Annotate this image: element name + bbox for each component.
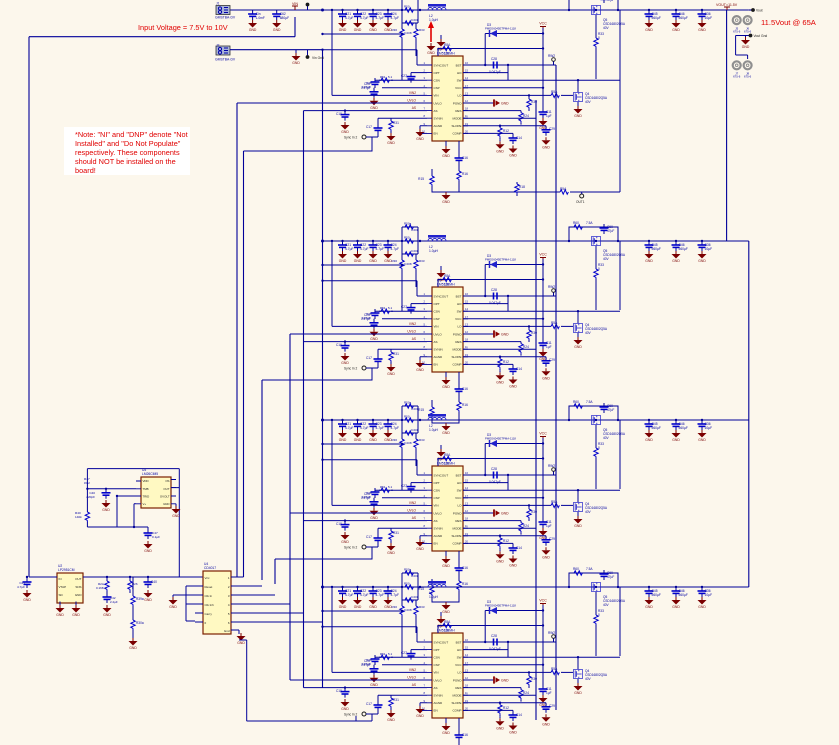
svg-text:0: 0 [598,267,600,271]
svg-text:R33: R33 [419,259,425,263]
svg-text:LM26CIM5: LM26CIM5 [142,472,158,476]
svg-text:VCC: VCC [455,317,462,321]
svg-text:VCC: VCC [539,253,547,257]
svg-text:Clk In: Clk In [205,594,213,598]
svg-text:R60: R60 [573,221,579,225]
svg-text:R39a: R39a [136,597,144,601]
svg-text:VDD: VDD [143,479,149,483]
svg-text:R5A: R5A [560,187,567,191]
svg-text:4.7µF: 4.7µF [376,247,385,251]
svg-text:675-6: 675-6 [744,30,752,34]
svg-text:675-6: 675-6 [733,75,741,79]
svg-text:UVLO: UVLO [407,330,416,334]
svg-text:OUT: OUT [75,577,82,581]
svg-text:140k: 140k [75,515,82,519]
svg-text:RW2: RW2 [548,285,555,289]
svg-text:R16: R16 [462,403,468,407]
svg-text:1µF: 1µF [546,345,552,349]
svg-text:Installed" and "Do Not Populat: Installed" and "Do Not Populate" [75,139,181,148]
svg-text:R50a: R50a [404,222,412,226]
svg-text:Vout: Vout [756,9,763,13]
svg-text:220pF: 220pF [86,495,95,499]
svg-text:R50: R50 [404,236,410,240]
svg-text:SW: SW [457,310,462,314]
svg-text:560µF: 560µF [679,247,688,251]
svg-text:VIN: VIN [434,325,439,329]
svg-text:0.008: 0.008 [411,228,419,232]
svg-text:R15: R15 [418,408,424,412]
svg-text:SYNCOUT: SYNCOUT [434,294,449,298]
svg-text:AS: AS [412,337,416,341]
svg-text:R24: R24 [523,345,529,349]
svg-text:VOUT=11.5V: VOUT=11.5V [716,3,738,7]
svg-text:PMEG6045ETPMA-1118: PMEG6045ETPMA-1118 [485,258,516,262]
svg-text:Clk Inh: Clk Inh [205,603,215,607]
svg-text:EN: EN [434,363,438,367]
svg-text:4.7µF: 4.7µF [360,247,369,251]
svg-text:V+: V+ [143,502,147,506]
svg-text:SLOPE: SLOPE [451,355,461,359]
svg-text:BST: BST [456,294,462,298]
svg-text:OS: OS [165,479,169,483]
svg-text:LP2951CM: LP2951CM [58,568,75,572]
svg-text:MODE: MODE [453,348,462,352]
svg-text:Input Voltage = 7.5V to 10V: Input Voltage = 7.5V to 10V [138,23,228,32]
svg-text:Vin Gnd: Vin Gnd [312,56,324,60]
svg-text:0.008: 0.008 [404,262,412,266]
svg-text:1.0mF: 1.0mF [256,16,265,20]
svg-text:SNS: SNS [75,585,81,589]
svg-text:4.7µF: 4.7µF [17,585,25,589]
svg-text:40V: 40V [603,257,610,261]
svg-text:UVLO: UVLO [434,332,443,336]
svg-text:R30a: R30a [136,621,144,625]
svg-text:CSN: CSN [434,310,440,314]
svg-text:Carry: Carry [205,612,213,616]
svg-text:HO: HO [457,302,462,306]
svg-text:680µF: 680µF [280,16,289,20]
svg-text:0.008: 0.008 [411,249,419,253]
svg-text:respectively. These component: respectively. These components [75,148,180,157]
svg-text:C17: C17 [366,356,372,360]
svg-text:RES: RES [455,340,461,344]
svg-text:R30: R30 [391,259,397,263]
svg-text:R31: R31 [393,352,399,356]
svg-text:TMB: TMB [143,487,149,491]
svg-text:40V: 40V [585,331,592,335]
svg-text:R8A: R8A [444,274,451,278]
svg-text:OVOLT: OVOLT [160,495,170,499]
svg-text:AGND: AGND [434,355,444,359]
svg-text:#G2: #G2 [84,481,90,485]
svg-text:GND: GND [75,593,83,597]
svg-text:C27: C27 [401,305,407,309]
svg-text:CD4017: CD4017 [204,566,216,570]
svg-text:675-6: 675-6 [744,75,752,79]
svg-text:VIN: VIN [292,2,298,6]
svg-text:47µF: 47µF [607,229,614,233]
svg-text:Vcc: Vcc [205,576,211,580]
svg-text:Sync In 2: Sync In 2 [344,367,358,371]
svg-text:C29: C29 [549,358,555,362]
svg-text:R51: R51 [380,306,386,310]
svg-text:2.2µF: 2.2µF [110,600,118,604]
svg-text:C40: C40 [151,580,157,584]
svg-text:GMSTBA-DV: GMSTBA-DV [215,16,236,20]
svg-text:0.168: 0.168 [96,586,104,590]
svg-text:OPT: OPT [434,302,440,306]
svg-text:10k: 10k [444,283,450,287]
svg-text:10µF: 10µF [705,247,713,251]
svg-text:AS: AS [434,340,438,344]
svg-text:0.047µF: 0.047µF [489,301,501,305]
svg-text:1.0µH: 1.0µH [429,249,438,253]
svg-text:OUT1: OUT1 [576,200,585,204]
svg-text:C16: C16 [462,387,468,391]
svg-text:*Note: "NI" and "DNP" denote ": *Note: "NI" and "DNP" denote "Not [75,130,188,139]
svg-text:LO: LO [457,325,462,329]
svg-text:IN: IN [59,577,62,581]
svg-text:5.1: 5.1 [388,306,393,310]
svg-text:Gnd: Gnd [224,629,230,633]
svg-text:SYNIN: SYNIN [434,348,443,352]
svg-text:TRID: TRID [143,495,150,499]
svg-text:4.7µF: 4.7µF [391,247,400,251]
svg-text:J2: J2 [216,44,220,48]
svg-text:J1: J1 [216,2,220,6]
svg-text:C10: C10 [336,343,342,347]
svg-text:11.5Vout @ 65A: 11.5Vout @ 65A [761,18,817,27]
svg-text:GND: GND [163,502,169,506]
svg-text:4.7µF: 4.7µF [345,247,354,251]
svg-text:board!: board! [75,166,96,175]
svg-text:7.5A: 7.5A [586,221,593,225]
svg-text:should NOT be installed on the: should NOT be installed on the [75,157,176,166]
svg-text:C28: C28 [491,288,497,292]
svg-text:COMP: COMP [453,363,462,367]
svg-text:Reset: Reset [205,585,213,589]
svg-text:0.1µF: 0.1µF [152,535,160,539]
svg-text:PGND: PGND [453,332,463,336]
svg-text:GMSTBA-DV: GMSTBA-DV [215,58,236,62]
svg-text:675-6: 675-6 [733,30,741,34]
svg-text:560µF: 560µF [652,247,661,251]
svg-text:VTAP: VTAP [59,585,67,589]
svg-text:R18: R18 [519,185,525,189]
svg-text:R5A: R5A [551,321,558,325]
svg-text:Vout Gnd: Vout Gnd [754,34,768,38]
svg-text:R12: R12 [503,360,509,364]
svg-text:C14: C14 [516,367,522,371]
svg-text:VIN2: VIN2 [409,322,416,326]
svg-text:OUT: OUT [163,487,169,491]
svg-text:0.47µF: 0.47µF [361,317,371,321]
svg-text:CSP: CSP [434,317,440,321]
